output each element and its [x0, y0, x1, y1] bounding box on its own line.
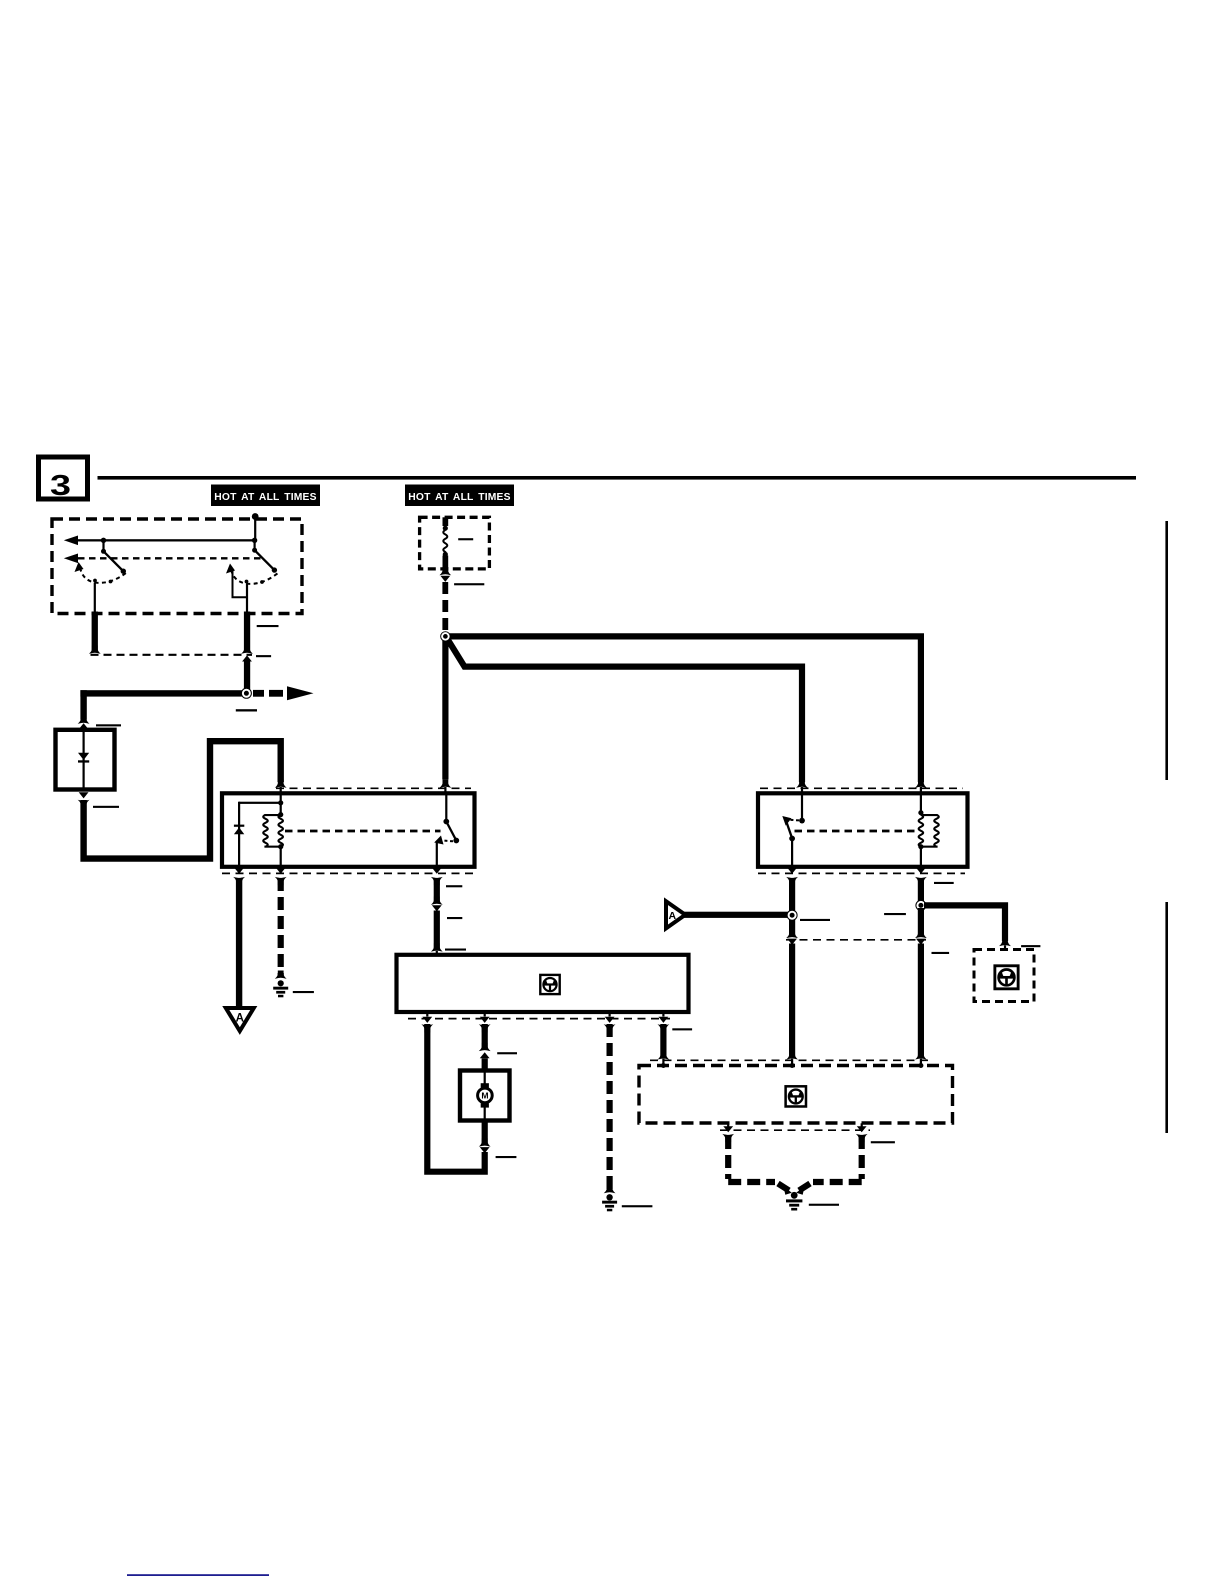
wire: dashed arrow continuing right — [253, 686, 314, 700]
diode box D — [56, 730, 115, 790]
node: pin dot 2 on column switch — [790, 1063, 795, 1068]
wire: ignition sw terminal down-left (thick) — [92, 612, 98, 651]
wire: diode box to relay K1 coil (thick S path) — [84, 741, 281, 858]
relay K2 actuation line (dashed) — [795, 830, 918, 833]
connector: motor negative lead — [479, 1121, 491, 1154]
motor M — [478, 1071, 493, 1121]
switch wafer 2 (right) of ignition switch — [226, 540, 278, 613]
connector: into relay K2 coil pin — [915, 780, 927, 794]
wire label line — [622, 1205, 653, 1207]
node: battery feed dot on ignition box top — [252, 513, 259, 520]
wire label line — [1021, 945, 1040, 947]
connector: column switch pin 6 — [856, 1123, 868, 1142]
steering wheel icon (stub box) — [995, 966, 1018, 989]
wire label line — [932, 952, 950, 954]
connector line above relay K1 (thin dashed) — [276, 787, 471, 789]
wire: feed down to relay K1 switch (thick) — [442, 636, 448, 779]
connector: out of diode box — [78, 792, 90, 808]
connector: into relay K1 switch pin — [440, 780, 452, 794]
connector: relay K1 pin 3 out — [431, 867, 443, 886]
connector: module pin 2 — [479, 1012, 491, 1033]
wire label line — [446, 885, 462, 887]
wire label line — [454, 583, 484, 585]
wire: module pin4 down to column switch (thick) — [658, 1024, 670, 1066]
connector: into relay K2 switch pin — [796, 780, 808, 794]
node: fuse output junction (open circle) — [440, 631, 450, 641]
motor box — [460, 1071, 510, 1121]
svg-text:3: 3 — [50, 470, 71, 502]
right margin bar lower — [1165, 902, 1168, 1133]
wire label line — [256, 655, 271, 657]
connector line above relay K2 (thin dashed) — [760, 787, 963, 789]
wire: module pin1 loop to motor (thick) — [427, 1024, 484, 1172]
wire: feed into ignition switch — [254, 517, 256, 541]
wire: column switch to ground left (thick dashed) — [728, 1136, 789, 1191]
wire label line — [800, 919, 830, 921]
relay K2 box — [758, 793, 968, 867]
wire: column switch to ground right (thick dashed) — [799, 1136, 862, 1191]
svg-text:M: M — [481, 1091, 488, 1101]
connector line below ignition switch (thin dashed) — [91, 654, 253, 656]
wire: relay K1 switch to module (thick, 2 connectors) — [431, 878, 443, 955]
wire label line — [445, 949, 466, 951]
wire: module pin2 to motor (thick) — [479, 1024, 491, 1071]
svg-text:A: A — [669, 910, 677, 922]
connector: inline on K2 pin2 wire — [915, 908, 927, 1066]
wire: module pin3 to ground (thick dashed) — [606, 1024, 612, 1190]
ground G1 — [273, 971, 288, 998]
right margin bar upper — [1165, 521, 1168, 780]
node: pin dot 3 on column switch — [918, 1063, 923, 1068]
connector line below relay K1 (thin dashed) — [222, 872, 475, 874]
wire: ignition sw terminal down-right (thick) — [244, 612, 250, 651]
wire label line — [236, 709, 257, 711]
relay K1 coil — [263, 794, 283, 867]
wire: relay K2 pin2 down (thick) — [918, 878, 924, 902]
connector: into relay K1 coil pin — [275, 780, 287, 794]
steering column switch box (dashed) — [639, 1066, 953, 1124]
wire label line — [884, 913, 906, 915]
label HOT AT ALL TIMES (left) — [211, 485, 320, 507]
header rule — [98, 476, 1137, 480]
node: pin dot 1 on column switch — [661, 1063, 666, 1068]
wire label line — [257, 625, 279, 627]
connector: relay K1 pin 1 out — [233, 867, 245, 886]
steering wheel icon (column switch) — [786, 1086, 806, 1106]
wire label line — [447, 917, 462, 919]
relay K1 actuation line (dashed) — [285, 830, 441, 833]
relay K1 suppression diode — [234, 802, 281, 866]
svg-text:HOT AT ALL TIMES: HOT AT ALL TIMES — [408, 492, 510, 503]
connector: relay K1 pin 2 out — [275, 867, 287, 886]
wire label line — [934, 882, 954, 884]
label HOT AT ALL TIMES (right) — [405, 485, 514, 507]
relay K2 switch — [782, 794, 805, 867]
connector line above column switch (thin dashed) — [650, 1059, 932, 1061]
connector: into diode box — [78, 716, 90, 730]
fuse F1 — [443, 517, 449, 571]
ignition switch box (dashed) — [52, 519, 302, 614]
wire: relay K1 coil to ground (thick dashed) — [278, 878, 284, 976]
relay K1 box — [222, 793, 475, 867]
connector: module pin 4 — [658, 1012, 670, 1033]
connector: module pin 1 — [421, 1012, 433, 1033]
ground G3 — [784, 1186, 805, 1210]
relay K2 coil — [918, 794, 938, 867]
switch wafer 1 (left) of ignition switch — [75, 540, 127, 613]
steering column switch stub box (dashed) — [974, 950, 1034, 1002]
steering wheel icon (module) — [540, 975, 559, 994]
connector line below column switch (thin dashed) — [720, 1129, 870, 1131]
page index box "3" — [39, 457, 88, 502]
wire: second feed to relay K2 switch (thick, diagonal offset) — [446, 637, 802, 782]
wire label line — [96, 724, 121, 726]
connector: left wire end at connector line — [89, 646, 101, 654]
wire: junction A horizontal run (thick) — [80, 690, 246, 696]
wire label line — [496, 1156, 517, 1158]
wire label line — [871, 1141, 895, 1143]
connector: into small dashed box — [999, 938, 1011, 951]
wire label line — [672, 1028, 692, 1030]
wire: branch to steering column connector (thick) — [924, 905, 1005, 941]
footer blue rule — [127, 1574, 269, 1576]
svg-text:A: A — [236, 1013, 244, 1025]
wire label line — [293, 991, 314, 993]
fuse value label line — [458, 538, 473, 540]
connector: relay K2 pin 1 out — [786, 867, 798, 886]
node: junction on K2 pin1 wire — [787, 910, 798, 921]
control module box (solid) — [397, 955, 689, 1012]
connector: inline on K2 pin1 wire — [786, 930, 798, 1066]
wire: ignition switch output (dashed, arrow left) — [64, 554, 263, 564]
connector: column switch pin 5 — [722, 1123, 734, 1142]
node: junction on K2 pin2 wire — [915, 900, 926, 911]
connector: right wire at connector line — [241, 646, 253, 691]
connector line below relay K2 (thin dashed) — [758, 872, 965, 874]
net label A (down triangle) — [226, 878, 254, 1031]
wire label line — [93, 806, 119, 808]
wire: ignition switch output (solid, arrow left) — [64, 536, 258, 546]
connector: relay K2 pin 2 out — [915, 867, 927, 886]
wire label line — [497, 1052, 517, 1054]
net label A (right, triangle) — [666, 901, 685, 928]
connector: module pin 3 — [604, 1012, 616, 1033]
wire label line — [809, 1204, 839, 1206]
wire: main feed to relay K2 coil (thick) — [445, 636, 921, 782]
wire: drop to diode box (thick) — [80, 690, 86, 720]
svg-text:HOT AT ALL TIMES: HOT AT ALL TIMES — [214, 492, 316, 503]
connector line between K2 outputs (thin dashed) — [786, 939, 926, 941]
ground G2 — [602, 1185, 617, 1211]
wire: fuse to junction (thick dashed) — [442, 582, 448, 632]
wire: relay K2 pin1 down (thick) — [789, 878, 795, 935]
fuse box (dashed) — [420, 517, 490, 569]
relay K1 switch — [434, 794, 459, 867]
connector: below fuse — [439, 567, 451, 582]
connector line below module (thin dashed) — [408, 1018, 670, 1020]
wire: net A to junction (thick) — [684, 912, 789, 918]
node: splice junction (open circle) — [241, 688, 252, 699]
diode D1 — [78, 731, 89, 788]
